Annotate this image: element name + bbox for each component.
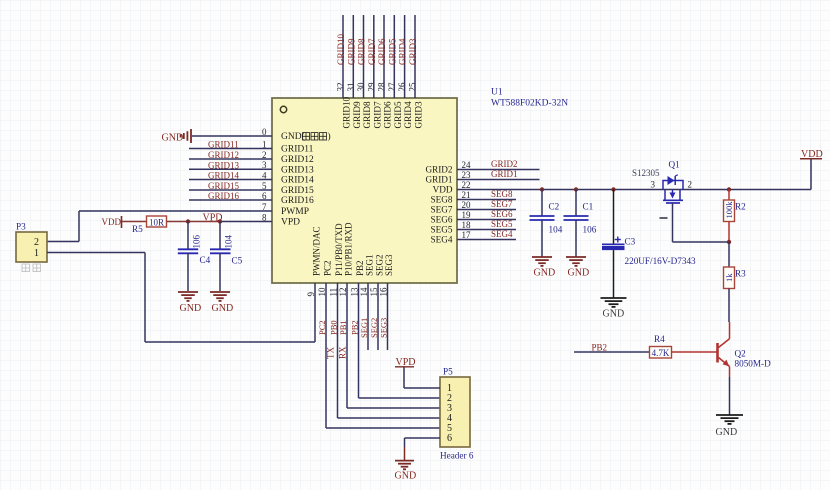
- resistor R3 1k: [724, 267, 747, 289]
- svg-text:GND: GND: [568, 268, 590, 279]
- svg-text:29: 29: [366, 82, 376, 92]
- net label PC2 (bottom): [317, 320, 327, 335]
- svg-text:SEG8: SEG8: [491, 189, 513, 199]
- junction at C3 on VDD rail: [611, 187, 615, 191]
- svg-text:Q2: Q2: [735, 349, 747, 359]
- svg-text:PB1: PB1: [338, 320, 348, 335]
- U1 top pin numbers 32-25: [336, 82, 418, 92]
- svg-text:SEG7: SEG7: [491, 199, 513, 209]
- svg-text:GRID14: GRID14: [208, 171, 239, 181]
- svg-text:P11/PB0/TXD: P11/PB0/TXD: [334, 223, 344, 276]
- svg-text:VDD: VDD: [433, 185, 453, 195]
- svg-text:GRID12: GRID12: [208, 150, 239, 160]
- wire net GRID4 (U1 top pin): [404, 15, 406, 98]
- svg-text:4.7K: 4.7K: [652, 348, 670, 358]
- svg-text:8050M-D: 8050M-D: [735, 359, 772, 369]
- svg-text:R5: R5: [132, 224, 143, 234]
- junction at R2 on VDD rail: [727, 187, 731, 191]
- transistor Q1 S12305 (P-MOSFET): [632, 160, 692, 204]
- svg-text:PWMP: PWMP: [281, 207, 309, 217]
- svg-text:27: 27: [387, 82, 397, 92]
- svg-text:S12305: S12305: [632, 168, 660, 178]
- ground below C2: [532, 257, 555, 279]
- capacitor C4 106: [178, 222, 211, 292]
- U1 designator and part number: [491, 88, 568, 109]
- svg-text:P5: P5: [443, 367, 453, 377]
- svg-text:GND: GND: [603, 309, 625, 320]
- svg-text:1k: 1k: [724, 273, 734, 282]
- svg-text:PB2: PB2: [350, 320, 360, 335]
- svg-text:GRID10: GRID10: [336, 34, 346, 65]
- net label GRID1: [491, 169, 518, 179]
- svg-text:R3: R3: [735, 269, 746, 279]
- wire SEG1 stub (U1 pin 14): [367, 283, 369, 350]
- svg-text:GND: GND: [162, 133, 184, 144]
- wire net GRID14: [189, 179, 272, 181]
- svg-text:23: 23: [462, 170, 472, 180]
- net label GRID9: [346, 38, 356, 65]
- svg-text:C4: C4: [200, 255, 211, 265]
- svg-text:SEG1: SEG1: [365, 254, 375, 276]
- ground below C3: [601, 298, 627, 320]
- net label VPD: [203, 212, 223, 223]
- wire net GRID3 (U1 top pin): [414, 15, 416, 98]
- svg-text:GRID6: GRID6: [377, 38, 387, 65]
- svg-text:GND(: GND(: [281, 131, 305, 142]
- net label SEG5: [491, 219, 513, 229]
- wire net SEG8: [457, 199, 516, 201]
- wire PWMP from U1 pin 7 to P3 pin 2: [47, 211, 272, 242]
- svg-text:22: 22: [462, 180, 471, 190]
- svg-text:28: 28: [377, 82, 387, 92]
- svg-text:24: 24: [462, 160, 472, 170]
- wire net GRID13: [189, 168, 272, 170]
- svg-text:GRID15: GRID15: [281, 186, 314, 196]
- svg-text:GRID7: GRID7: [372, 101, 382, 128]
- net label GRID15: [208, 181, 239, 191]
- svg-text:10R: 10R: [149, 217, 164, 227]
- resistor R5 10R: [132, 216, 167, 234]
- net label GRID4: [398, 38, 408, 65]
- svg-text:WT588F02KD-32N: WT588F02KD-32N: [491, 99, 568, 109]
- wire net GRID2 (U1 pin 24): [457, 169, 540, 171]
- wire VPD to P5 pin 1: [404, 367, 440, 388]
- svg-text:SEG4: SEG4: [491, 229, 513, 239]
- connector P5 Header 6: [440, 367, 474, 461]
- svg-text:U1: U1: [491, 88, 503, 98]
- capacitor C2 104: [530, 190, 563, 257]
- junction gate node: [727, 240, 731, 244]
- svg-text:2: 2: [688, 180, 693, 190]
- svg-text:GRID12: GRID12: [281, 155, 314, 165]
- svg-text:104: 104: [549, 225, 563, 235]
- svg-text:P10/PB1/RXD: P10/PB1/RXD: [344, 222, 354, 276]
- svg-text:GRID4: GRID4: [403, 101, 413, 128]
- svg-text:SEG7: SEG7: [431, 205, 453, 215]
- connector P3 (speaker): [16, 222, 47, 272]
- net label RX: [338, 346, 348, 359]
- net label SEG7: [491, 199, 513, 209]
- net label SEG3 (bottom): [379, 318, 389, 338]
- wire P5 pin 6 to ground: [405, 438, 441, 460]
- svg-text:GRID3: GRID3: [408, 38, 418, 65]
- IC U1 WT588F02KD-32N body: [272, 96, 457, 283]
- wire net SEG7: [457, 209, 516, 211]
- svg-text:GRID16: GRID16: [281, 196, 314, 206]
- svg-text:TX: TX: [326, 347, 336, 359]
- svg-text:SEG4: SEG4: [431, 235, 453, 245]
- wire net GRID1 (U1 pin 23): [457, 179, 540, 181]
- net label GRID7: [367, 38, 377, 65]
- capacitor C5 104: [210, 222, 243, 292]
- svg-text:GRID3: GRID3: [414, 101, 424, 128]
- junction C5 node: [218, 219, 222, 223]
- svg-text:GRID1: GRID1: [425, 175, 452, 185]
- svg-text:C5: C5: [232, 256, 243, 266]
- svg-text:106: 106: [583, 225, 597, 235]
- ground below Q2: [716, 415, 744, 438]
- svg-text:GRID9: GRID9: [346, 38, 356, 65]
- U1 right pin numbers 24-17: [462, 160, 472, 240]
- svg-text:GRID4: GRID4: [398, 38, 408, 65]
- svg-text:100k: 100k: [724, 201, 734, 219]
- svg-text:19: 19: [462, 210, 472, 220]
- wire SEG2 stub (U1 pin 15): [377, 283, 379, 350]
- svg-text:GRID5: GRID5: [393, 101, 403, 128]
- net label PB0 (bottom): [329, 320, 339, 335]
- wire VDD to R5: [122, 221, 147, 223]
- svg-text:GRID2: GRID2: [425, 165, 452, 175]
- net label SEG2 (bottom): [369, 318, 379, 338]
- svg-text:SEG3: SEG3: [379, 318, 389, 338]
- svg-text:220UF/16V-D7343: 220UF/16V-D7343: [625, 256, 697, 266]
- ground below C4: [178, 292, 201, 314]
- capacitor C1 106: [564, 190, 597, 257]
- svg-text:106: 106: [192, 235, 202, 249]
- svg-text:): ): [328, 131, 331, 142]
- net label GRID10: [336, 34, 346, 65]
- net label GRID2: [491, 159, 518, 169]
- svg-text:GRID14: GRID14: [281, 176, 314, 186]
- wire R4 to Q2 base: [672, 351, 717, 353]
- svg-text:GRID11: GRID11: [281, 145, 314, 155]
- svg-text:R2: R2: [735, 202, 746, 212]
- svg-text:SEG5: SEG5: [431, 225, 453, 235]
- net label GRID12: [208, 150, 239, 160]
- net label GRID11: [208, 140, 239, 150]
- net label GRID5: [387, 38, 397, 65]
- svg-text:2: 2: [34, 237, 39, 248]
- svg-text:GND: GND: [212, 303, 234, 314]
- capacitor C3 220UF/16V-D7343 (polarized): [602, 190, 696, 298]
- U1 bottom pin numbers 9-16: [306, 287, 389, 297]
- svg-text:SEG2: SEG2: [369, 318, 379, 338]
- ground below C1: [566, 257, 589, 279]
- wire net GRID10 (U1 top pin): [342, 15, 344, 98]
- svg-text:GRID10: GRID10: [342, 96, 352, 128]
- svg-text:26: 26: [397, 82, 407, 92]
- U1 left pin numbers 0-8: [262, 127, 267, 223]
- transistor Q2 8050M-D (NPN): [718, 339, 772, 369]
- wire net GRID9 (U1 top pin): [352, 15, 354, 98]
- ground symbol at U1 pin 0: [162, 129, 192, 144]
- svg-text:PB2: PB2: [592, 342, 608, 352]
- power port VDD (top right): [800, 149, 823, 160]
- net label SEG1 (bottom): [359, 318, 369, 338]
- wire P3 pin 1 to U1 pin 9 (PWMN/DAC): [47, 253, 315, 343]
- svg-text:6: 6: [447, 433, 452, 444]
- svg-text:SEG2: SEG2: [375, 254, 385, 276]
- net label GRID13: [208, 161, 239, 171]
- net label PB2 (bottom): [350, 320, 360, 335]
- resistor R2 100k: [724, 200, 747, 222]
- net label GRID3: [408, 38, 418, 65]
- wire VPD net R5 to U1 pin 8: [167, 221, 273, 223]
- wire PC2 (U1 pin 10 to P5 pin 5): [326, 283, 440, 428]
- net label SEG8: [491, 189, 513, 199]
- junction at C2 on VDD rail: [540, 187, 544, 191]
- svg-text:GRID8: GRID8: [357, 38, 367, 65]
- svg-text:Q1: Q1: [669, 160, 681, 170]
- wire net GRID15: [189, 189, 272, 191]
- svg-text:104: 104: [224, 235, 234, 249]
- svg-text:GND: GND: [180, 303, 202, 314]
- svg-text:SEG1: SEG1: [359, 318, 369, 338]
- wire gate node to R3: [728, 242, 730, 267]
- svg-text:SEG6: SEG6: [491, 209, 513, 219]
- net label GRID16: [208, 191, 239, 201]
- ground below C5: [210, 292, 233, 314]
- svg-text:SEG8: SEG8: [431, 195, 453, 205]
- svg-text:GRID11: GRID11: [208, 140, 239, 150]
- junction C4 node: [186, 219, 190, 223]
- wire net SEG5: [457, 229, 516, 231]
- wire Q1 gate to R2/R3 node: [660, 203, 730, 242]
- wire Q2 emitter to ground: [729, 367, 731, 415]
- power port VDD (left): [102, 216, 122, 228]
- svg-text:SEG6: SEG6: [431, 215, 453, 225]
- svg-text:C1: C1: [583, 202, 594, 212]
- net label PB2: [592, 342, 608, 352]
- svg-text:PB0: PB0: [329, 320, 339, 335]
- svg-text:GRID13: GRID13: [281, 166, 314, 176]
- wire PB2 (U1 pin 13 to P5 pin 2): [359, 283, 441, 398]
- svg-text:GRID13: GRID13: [208, 161, 239, 171]
- svg-text:17: 17: [462, 230, 472, 240]
- svg-text:GRID8: GRID8: [362, 101, 372, 128]
- wire net SEG4: [457, 239, 516, 241]
- svg-text:GRID7: GRID7: [367, 38, 377, 65]
- net label SEG6: [491, 209, 513, 219]
- svg-text:RX: RX: [338, 346, 348, 359]
- svg-text:31: 31: [346, 83, 356, 92]
- svg-text:P3: P3: [16, 222, 26, 232]
- wire net GRID11: [189, 148, 272, 150]
- svg-text:GND: GND: [716, 427, 738, 438]
- svg-text:GND: GND: [534, 268, 556, 279]
- net label VPD (at P5 pin 1): [395, 357, 416, 368]
- svg-text:1: 1: [34, 248, 39, 259]
- svg-text:32: 32: [336, 83, 346, 92]
- svg-text:VPD: VPD: [281, 218, 300, 228]
- wire VDD rail (U1 pin 22 to top-right VDD): [457, 159, 811, 190]
- svg-text:3: 3: [651, 180, 656, 190]
- ground below P5: [395, 461, 417, 482]
- svg-text:SEG5: SEG5: [491, 219, 513, 229]
- net label TX: [326, 347, 336, 359]
- svg-text:C3: C3: [625, 237, 636, 247]
- wire net PB2 to R4: [574, 351, 650, 353]
- wire R3 to Q2 collector: [728, 289, 731, 339]
- svg-text:Header 6: Header 6: [440, 451, 474, 461]
- wire net GRID12: [189, 158, 272, 160]
- wire net SEG6: [457, 219, 516, 221]
- wire net GRID16: [189, 199, 272, 201]
- svg-text:GRID1: GRID1: [491, 169, 518, 179]
- svg-text:20: 20: [462, 200, 472, 210]
- svg-text:30: 30: [356, 82, 366, 92]
- wire SEG3 stub (U1 pin 16): [387, 283, 389, 350]
- wire net GRID5 (U1 top pin): [393, 15, 395, 98]
- wire net GRID8 (U1 top pin): [363, 15, 365, 98]
- svg-text:C2: C2: [549, 202, 560, 212]
- wire R2 to gate node: [728, 222, 730, 243]
- svg-text:PC2: PC2: [317, 320, 327, 335]
- svg-text:GRID9: GRID9: [352, 101, 362, 128]
- svg-text:25: 25: [408, 82, 418, 92]
- wire net GRID6 (U1 top pin): [383, 15, 385, 98]
- svg-text:18: 18: [462, 220, 472, 230]
- svg-text:VDD: VDD: [102, 217, 122, 227]
- wire U1 pin 0 to ground: [192, 135, 272, 137]
- svg-text:GRID2: GRID2: [491, 159, 518, 169]
- wire RX/PB1 (U1 pin 12 to P5 pin 3): [347, 283, 440, 408]
- net label GRID8: [357, 38, 367, 65]
- svg-text:GRID5: GRID5: [387, 38, 397, 65]
- net label SEG4: [491, 229, 513, 239]
- wire VDD to R2: [728, 190, 730, 201]
- net label PB1 (bottom): [338, 320, 348, 335]
- resistor R4 4.7K: [650, 334, 672, 358]
- svg-text:SEG3: SEG3: [384, 254, 394, 276]
- net label GRID14: [208, 171, 239, 181]
- svg-text:R4: R4: [654, 334, 665, 344]
- net label GRID6: [377, 38, 387, 65]
- junction at C1 on VDD rail: [574, 187, 578, 191]
- svg-text:21: 21: [462, 190, 471, 200]
- svg-text:PB2: PB2: [355, 260, 365, 276]
- svg-text:GRID16: GRID16: [208, 191, 239, 201]
- wire TX/PB0 (U1 pin 11 to P5 pin 4): [338, 283, 441, 418]
- wire net GRID7 (U1 top pin): [373, 15, 375, 98]
- svg-text:GND: GND: [395, 471, 417, 482]
- svg-text:PC2: PC2: [323, 260, 333, 276]
- svg-text:PWMN/DAC: PWMN/DAC: [312, 226, 322, 276]
- svg-text:GRID15: GRID15: [208, 181, 239, 191]
- svg-text:GRID6: GRID6: [383, 101, 393, 128]
